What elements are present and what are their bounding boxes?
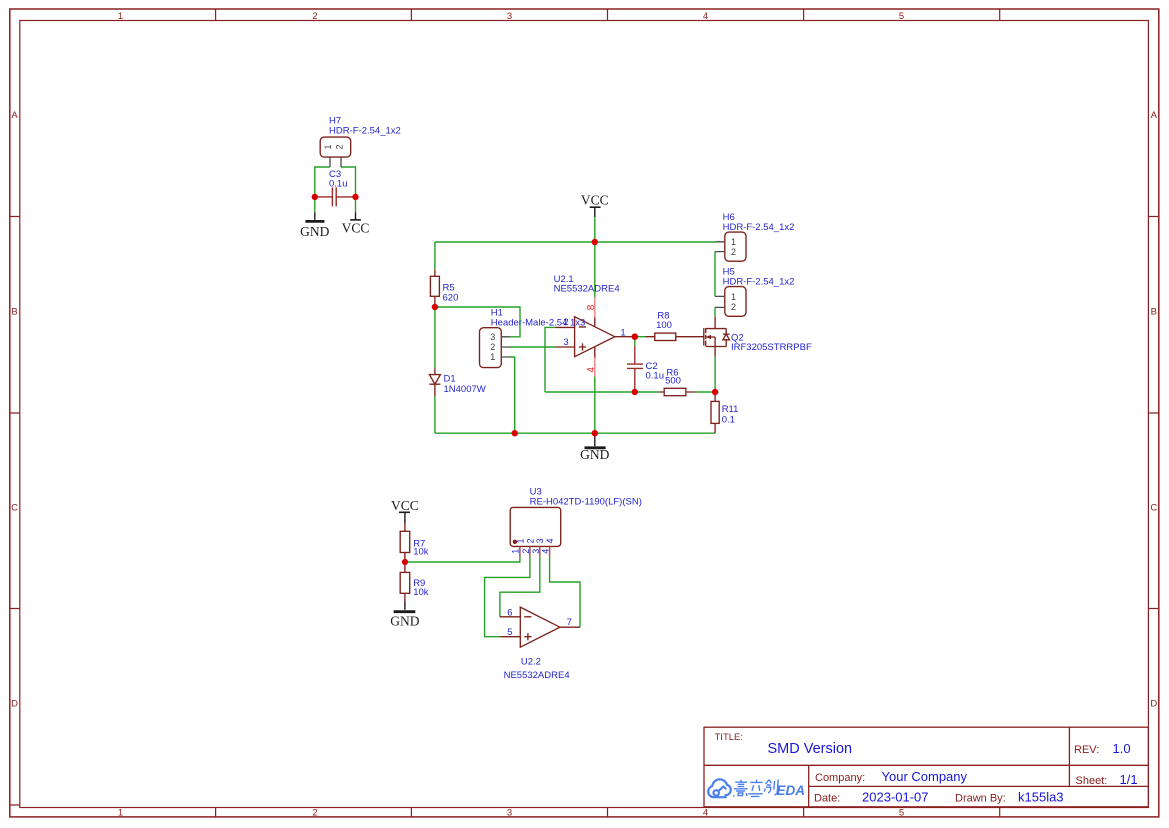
- svg-text:4: 4: [586, 367, 597, 373]
- svg-text:Date:: Date:: [814, 793, 840, 805]
- svg-text:3: 3: [507, 808, 512, 819]
- svg-text:1: 1: [490, 352, 495, 362]
- svg-text:0.1: 0.1: [722, 415, 735, 426]
- svg-text:100: 100: [656, 320, 672, 331]
- svg-text:GND: GND: [580, 447, 609, 462]
- svg-text:1: 1: [515, 538, 525, 543]
- svg-text:500: 500: [665, 376, 681, 387]
- svg-text:VCC: VCC: [581, 193, 609, 208]
- svg-text:2: 2: [731, 247, 736, 257]
- svg-text:3: 3: [507, 11, 512, 22]
- svg-text:620: 620: [443, 293, 459, 304]
- svg-text:R11: R11: [722, 404, 739, 415]
- svg-text:REV:: REV:: [1074, 744, 1099, 756]
- svg-text:Header-Male-2.54 1x3: Header-Male-2.54 1x3: [491, 317, 586, 328]
- svg-text:2: 2: [525, 538, 535, 543]
- svg-text:4: 4: [703, 11, 708, 22]
- svg-text:C: C: [11, 503, 18, 514]
- svg-text:Company:: Company:: [815, 772, 865, 784]
- svg-text:2: 2: [334, 144, 344, 149]
- svg-text:A: A: [1151, 110, 1158, 121]
- svg-text:1: 1: [731, 292, 736, 302]
- svg-text:3: 3: [563, 337, 568, 348]
- svg-text:1: 1: [323, 144, 333, 149]
- svg-text:1.0: 1.0: [1113, 741, 1131, 756]
- svg-text:3: 3: [490, 332, 495, 342]
- svg-text:1/1: 1/1: [1120, 772, 1138, 787]
- svg-text:B: B: [11, 307, 17, 318]
- svg-text:4: 4: [703, 808, 708, 819]
- svg-text:2: 2: [563, 317, 568, 328]
- svg-text:SMD Version: SMD Version: [768, 741, 853, 757]
- svg-text:HDR-F-2.54_1x2: HDR-F-2.54_1x2: [723, 222, 795, 233]
- svg-text:Sheet:: Sheet:: [1076, 775, 1108, 787]
- svg-text:1: 1: [511, 549, 521, 554]
- svg-text:Drawn By:: Drawn By:: [955, 793, 1006, 805]
- svg-text:2: 2: [312, 808, 317, 819]
- svg-text:GND: GND: [390, 613, 419, 628]
- svg-text:2023-01-07: 2023-01-07: [862, 790, 929, 805]
- svg-text:VCC: VCC: [342, 220, 370, 235]
- svg-text:NE5532ADRE4: NE5532ADRE4: [554, 283, 620, 294]
- svg-text:2: 2: [490, 342, 495, 352]
- svg-text:0.1u: 0.1u: [646, 371, 665, 382]
- svg-text:1: 1: [731, 237, 736, 247]
- svg-text:1: 1: [118, 11, 123, 22]
- svg-text:B: B: [1151, 307, 1157, 318]
- svg-text:2: 2: [731, 302, 736, 312]
- svg-text:GND: GND: [300, 224, 329, 239]
- svg-text:5: 5: [899, 11, 904, 22]
- svg-text:D1: D1: [444, 374, 456, 385]
- svg-text:1: 1: [118, 808, 123, 819]
- svg-text:IRF3205STRRPBF: IRF3205STRRPBF: [731, 342, 812, 353]
- svg-text:U2.2: U2.2: [521, 657, 541, 668]
- svg-text:1N4007W: 1N4007W: [444, 384, 486, 395]
- svg-text:5: 5: [507, 627, 512, 638]
- svg-text:C: C: [1150, 503, 1157, 514]
- svg-text:1: 1: [620, 328, 625, 339]
- svg-text:2: 2: [312, 11, 317, 22]
- svg-text:D: D: [11, 699, 18, 710]
- svg-text:RE-H042TD-1190(LF)(SN): RE-H042TD-1190(LF)(SN): [530, 496, 642, 507]
- svg-text:7: 7: [567, 617, 572, 628]
- svg-text:2: 2: [521, 549, 531, 554]
- svg-text:5: 5: [899, 808, 904, 819]
- svg-text:HDR-F-2.54_1x2: HDR-F-2.54_1x2: [329, 126, 401, 137]
- svg-text:HDR-F-2.54_1x2: HDR-F-2.54_1x2: [723, 276, 795, 287]
- svg-text:NE5532ADRE4: NE5532ADRE4: [504, 670, 570, 681]
- svg-text:4: 4: [545, 538, 555, 543]
- svg-text:Your Company: Your Company: [882, 769, 968, 784]
- svg-text:4: 4: [541, 549, 551, 554]
- svg-text:D: D: [1150, 699, 1157, 710]
- svg-text:3: 3: [535, 538, 545, 543]
- svg-text:10k: 10k: [413, 547, 429, 558]
- svg-text:VCC: VCC: [391, 498, 419, 513]
- svg-text:3: 3: [531, 549, 541, 554]
- svg-text:6: 6: [507, 608, 512, 619]
- svg-text:8: 8: [586, 304, 597, 310]
- svg-text:k155la3: k155la3: [1018, 790, 1064, 805]
- svg-text:0.1u: 0.1u: [329, 179, 348, 190]
- svg-text:A: A: [11, 110, 18, 121]
- svg-text:10k: 10k: [413, 587, 429, 598]
- svg-text:TITLE:: TITLE:: [715, 732, 744, 743]
- svg-text:EDA: EDA: [777, 783, 806, 798]
